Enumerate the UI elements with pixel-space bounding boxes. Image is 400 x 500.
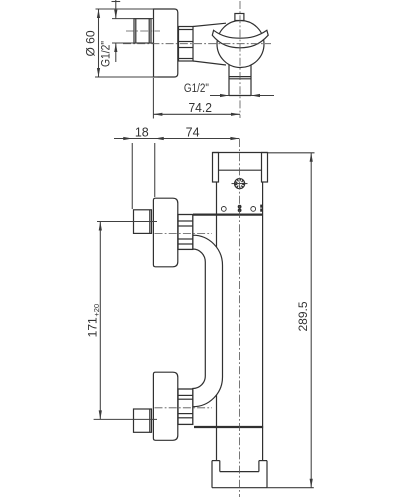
svg-text:G1/2": G1/2"	[184, 83, 209, 95]
svg-text:289.5: 289.5	[296, 301, 310, 331]
svg-text:Ø 60: Ø 60	[84, 30, 98, 56]
svg-text:74: 74	[186, 126, 200, 140]
svg-text:+20: +20	[92, 304, 101, 317]
svg-text:G1/2": G1/2"	[99, 41, 113, 67]
svg-text:74.2: 74.2	[188, 101, 212, 115]
svg-text:171: 171	[86, 317, 100, 337]
svg-text:18: 18	[135, 126, 149, 140]
